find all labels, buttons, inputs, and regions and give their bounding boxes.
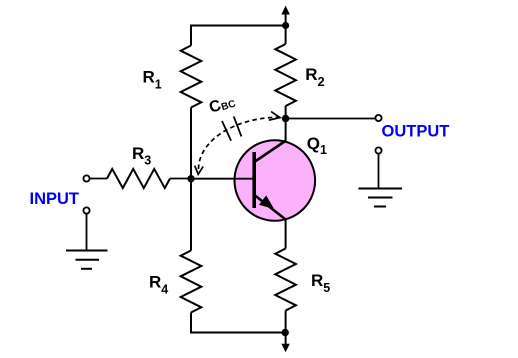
junction dot bottom rail	[282, 329, 289, 336]
ground (output)	[359, 189, 403, 207]
resistor R5	[275, 249, 296, 311]
svg-text:CBC: CBC	[207, 93, 237, 117]
svg-text:R4: R4	[149, 273, 168, 297]
arrowhead of arc at collector (right)	[269, 112, 280, 121]
wire R2 top	[285, 26, 287, 45]
junction dot base node	[187, 175, 194, 182]
junction dot collector node	[282, 115, 289, 122]
input terminal circle	[83, 175, 89, 181]
transistor base bar	[252, 152, 256, 208]
svg-text:R2: R2	[305, 65, 324, 89]
wire R1 bottom to base node	[190, 108, 192, 180]
ground (input)	[66, 251, 108, 269]
wire bottom rail	[191, 313, 285, 333]
transistor collector stroke	[255, 141, 286, 162]
wire emitter	[285, 220, 287, 249]
capacitor CBC dashed feedback arc	[199, 117, 278, 169]
svg-text:Q1: Q1	[307, 134, 327, 157]
capacitor CBC plates	[222, 116, 241, 140]
svg-text:OUTPUT: OUTPUT	[382, 122, 450, 140]
wire input ground	[86, 214, 88, 251]
output terminal circle	[375, 115, 381, 121]
transistor Q1 body circle	[234, 140, 315, 221]
resistor R1	[181, 46, 202, 108]
resistor R4	[181, 251, 202, 313]
ground/return arrow (down)	[281, 333, 289, 353]
svg-text:R3: R3	[132, 144, 151, 168]
junction dot top rail	[282, 22, 289, 29]
wire base node to R4	[190, 179, 192, 251]
wire top rail	[191, 26, 286, 46]
resistor R2	[275, 44, 296, 106]
svg-text:R1: R1	[143, 68, 162, 92]
wire input terminal to R3	[90, 178, 107, 180]
wire output ground	[378, 154, 380, 189]
svg-text:R5: R5	[311, 271, 330, 295]
wire base	[191, 178, 253, 180]
output ground terminal circle	[375, 147, 381, 153]
transistor emitter stroke	[255, 196, 285, 220]
power supply arrow (Vcc)	[281, 6, 289, 27]
wire collector	[285, 119, 287, 142]
wire collector node to output terminal	[286, 118, 376, 120]
wire R5 bottom	[285, 311, 287, 333]
resistor R3	[107, 169, 170, 188]
arrowhead of arc at base (down)	[195, 166, 203, 175]
input ground terminal circle	[83, 207, 89, 213]
wire R2 bottom to collector node	[285, 106, 287, 119]
svg-text:INPUT: INPUT	[30, 190, 80, 208]
transistor emitter arrowhead	[259, 195, 274, 209]
wire R3 to base node	[170, 178, 191, 180]
